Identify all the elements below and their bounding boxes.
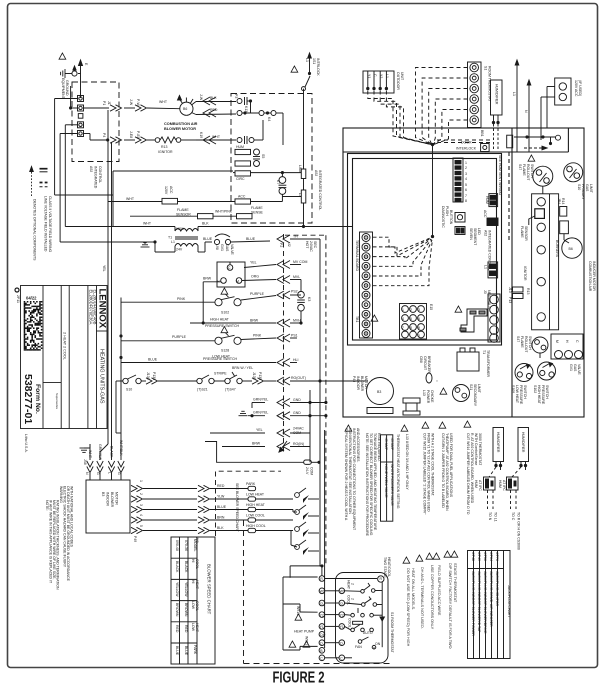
YEL row (210, 432, 265, 434)
svg-text:LOW: LOW (191, 623, 195, 632)
svg-text:J138: J138 (146, 372, 150, 380)
svg-text:FIELD SUPPLIED ACC WIRE: FIELD SUPPLIED ACC WIRE (437, 565, 441, 616)
svg-text:BLOWER SPEED CHART: BLOWER SPEED CHART (207, 564, 212, 615)
svg-text:BLACK: BLACK (184, 561, 188, 573)
svg-text:HIGH HEAT: HIGH HEAT (537, 385, 541, 405)
long verticals to blower (107, 110, 109, 444)
svg-text:JACK/PLUG-INDOOR BLOWER/DRIVE: JACK/PLUG-INDOOR BLOWER/DRIVE (483, 571, 487, 634)
BRW row (222, 446, 265, 448)
svg-text:SEE BLOWER SPEED CHART: SEE BLOWER SPEED CHART (235, 483, 239, 533)
svg-text:090-48: 090-48 (175, 540, 179, 551)
svg-text:PS1: PS1 (291, 334, 298, 338)
svg-text:K7: K7 (276, 180, 280, 184)
svg-text:J48: J48 (83, 459, 87, 465)
svg-text:JACK/PLUG-INDOOR BLOWER/B TAP: JACK/PLUG-INDOOR BLOWER/B TAP (477, 571, 481, 633)
HUM AT IFC plugs (485, 479, 517, 489)
svg-text:2: 2 (351, 598, 355, 600)
svg-text:BREAKER: BREAKER (427, 356, 431, 373)
motor box (86, 480, 130, 533)
svg-text:WHT: WHT (143, 222, 152, 226)
svg-text:OR DEATH UNIT MUST BE GROUNDED: OR DEATH UNIT MUST BE GROUNDED IN ACCORD… (66, 486, 70, 582)
ACC pair (487, 218, 498, 226)
svg-text:LIMIT: LIMIT (589, 184, 593, 194)
svg-text:R14: R14 (561, 198, 565, 204)
door interlock cabinet (481, 144, 490, 152)
svg-text:BLOWER MOTOR: BLOWER MOTOR (164, 127, 196, 131)
svg-text:ACC: ACC (238, 195, 246, 199)
svg-text:HEAT PUMP: HEAT PUMP (294, 630, 315, 634)
svg-text:LED: LED (477, 228, 481, 235)
S47 rollout (533, 166, 553, 186)
svg-text:SEVEN: SEVEN (469, 228, 473, 240)
blue wire (121, 362, 276, 364)
svg-text:L13: L13 (422, 390, 426, 396)
big dashed box (243, 520, 245, 664)
svg-text:BROWN: BROWN (184, 603, 188, 617)
svg-text:RISE REQUIRED.: RISE REQUIRED. (377, 433, 381, 462)
svg-text:P138: P138 (152, 372, 156, 380)
diagnostic push button (455, 213, 465, 223)
svg-text:MUST BE REPLACED WITH WIRE OF: MUST BE REPLACED WITH WIRE OF LIKE SIZE, (52, 500, 56, 580)
svg-text:L1: L1 (385, 74, 389, 78)
svg-text:SECONDARY: SECONDARY (473, 384, 477, 407)
svg-text:120V: 120V (164, 186, 168, 195)
svg-text:HEAT: HEAT (347, 580, 351, 590)
svg-text:CHOKE: CHOKE (430, 390, 434, 403)
svg-text:INTRLOCK: INTRLOCK (316, 58, 320, 76)
J49 chevrons right (131, 485, 143, 491)
svg-text:DIP SWITCH FACTORY DEFAULT IS: DIP SWITCH FACTORY DEFAULT IS FOR A TWO (448, 563, 452, 649)
svg-text:G: G (365, 274, 367, 278)
svg-text:JACK/PLUG-INDOOR BLOWER POWER: JACK/PLUG-INDOOR BLOWER POWER (471, 571, 475, 636)
svg-text:J/P58: J/P58 (483, 552, 487, 561)
S102 high heat pressure switch (538, 362, 556, 380)
svg-text:J-E8: J-E8 (129, 131, 133, 138)
svg-text:1: 1 (465, 161, 467, 165)
humidifier boxes (493, 428, 504, 462)
svg-text:BLOWER: BLOWER (360, 376, 364, 392)
B3 motor (367, 378, 394, 405)
svg-text:VALVE: VALVE (230, 244, 234, 255)
keypad grid (400, 304, 427, 340)
svg-text:SWITCH: SWITCH (528, 336, 532, 350)
svg-text:RO(OUT): RO(OUT) (291, 376, 306, 380)
svg-text:JACK/PLUG-COMB. AIR INDUCER: JACK/PLUG-COMB. AIR INDUCER (489, 571, 493, 627)
K3 coil circles (300, 280, 302, 292)
svg-text:P3: P3 (234, 94, 238, 98)
svg-text:M: M (236, 280, 239, 284)
svg-text:W1: W1 (320, 590, 325, 594)
svg-text:J1: J1 (107, 101, 111, 105)
svg-text:INDUCER MOTOR: INDUCER MOTOR (592, 261, 596, 291)
svg-text:R: R (365, 322, 367, 326)
svg-text:7: 7 (402, 326, 404, 330)
svg-text:CUT W914 JUMPER LABELED DHUM F: CUT W914 JUMPER LABELED DHUM FROM O TO (466, 433, 470, 515)
svg-text:TRANSFORMER: TRANSFORMER (486, 350, 490, 378)
svg-text:1: 1 (139, 480, 143, 482)
svg-text:J13: J13 (508, 287, 512, 293)
svg-text:INDOOR: INDOOR (356, 376, 360, 390)
svg-text:6: 6 (465, 188, 467, 192)
svg-text:BRW: BRW (250, 319, 259, 323)
room thermostat strip (468, 62, 482, 128)
svg-text:Y1: Y1 (340, 625, 344, 629)
GV1 arc circles on TH wire (214, 239, 219, 244)
svg-text:ELECTRIC SHOCK HAZARD CAN CAUS: ELECTRIC SHOCK HAZARD CAN CAUSE INJURY (63, 486, 67, 568)
svg-text:RED: RED (184, 625, 188, 633)
RED wire (196, 113, 236, 116)
svg-text:CLASS II VOLTAGE FIELD WIRING: CLASS II VOLTAGE FIELD WIRING (48, 196, 52, 253)
svg-text:W2: W2 (364, 255, 369, 259)
svg-text:D: D (320, 641, 323, 645)
svg-text:G: G (340, 602, 343, 606)
svg-text:A92: A92 (484, 230, 488, 236)
svg-text:R: R (320, 577, 323, 581)
svg-text:K4: K4 (267, 117, 271, 121)
svg-text:ROLLOUT: ROLLOUT (526, 164, 530, 181)
dashed J2 boundary (283, 234, 285, 455)
R13 ignitor (513, 287, 524, 292)
flame sensor (198, 214, 214, 219)
svg-text:L1: L1 (298, 193, 302, 197)
wires rows to stat (325, 578, 377, 580)
svg-text:N: N (524, 110, 528, 113)
svg-text:J/P76: J/P76 (495, 552, 499, 561)
ground at J48 (89, 444, 91, 448)
svg-text:PINK: PINK (177, 297, 186, 301)
svg-text:MODEL: MODEL (193, 539, 197, 552)
svg-text:L1: L1 (512, 92, 516, 96)
svg-text:S1 ROOM THERMOSTAT: S1 ROOM THERMOSTAT (390, 612, 394, 654)
svg-text:HEATING UNITS-GAS: HEATING UNITS-GAS (99, 349, 105, 404)
svg-text:538277-01: 538277-01 (22, 374, 34, 424)
svg-text:LINE VOLTAGE FIELD INSTALLED: LINE VOLTAGE FIELD INSTALLED (44, 196, 48, 252)
svg-text:PARK: PARK (193, 645, 197, 655)
svg-text:FLAME: FLAME (520, 226, 524, 238)
svg-text:RED: RED (210, 108, 218, 112)
svg-text:BURNERS: BURNERS (555, 240, 559, 258)
svg-text:RED: RED (175, 625, 179, 633)
svg-text:BRN W / YEL: BRN W / YEL (232, 366, 253, 370)
fuse (507, 135, 513, 148)
svg-text:PS2: PS2 (291, 290, 298, 294)
svg-text:COMBUSTION AIR: COMBUSTION AIR (588, 261, 592, 292)
svg-text:.43 AMP: .43 AMP (390, 437, 394, 451)
svg-text:MOTOR: MOTOR (115, 492, 119, 505)
dip switches (453, 158, 463, 202)
svg-text:IGNITOR: IGNITOR (523, 266, 527, 281)
svg-text:NOTE:: NOTE: (45, 500, 49, 511)
svg-text:Y2: Y2 (340, 613, 344, 617)
high heat pressure switch S102 (215, 294, 241, 306)
svg-text:WITH ComfortSense: WITH ComfortSense (474, 433, 478, 465)
wire CIRC y=172.6 (233, 172, 235, 174)
svg-text:L1: L1 (484, 265, 488, 269)
svg-text:J/P64: J/P64 (489, 552, 493, 561)
fan node (431, 143, 433, 145)
svg-text:HEAT ON ALL MODELS.: HEAT ON ALL MODELS. (411, 568, 415, 610)
svg-text:TYPICAL SYSTEM SHOWN FOR 2 HEA: TYPICAL SYSTEM SHOWN FOR 2 HEAT/2 COOL W… (344, 428, 348, 521)
svg-text:2: 2 (410, 308, 412, 312)
door interlock (302, 87, 306, 91)
placeholder groups (55, 53, 198, 444)
svg-text:W1: W1 (364, 265, 369, 269)
combustion air blower motor (180, 102, 193, 115)
svg-text:HUM: HUM (236, 145, 244, 149)
WHT ignitor wire (196, 139, 236, 141)
L1/LINE pairs (488, 262, 498, 278)
svg-text:BLUE: BLUE (175, 646, 179, 656)
120V acc box (555, 78, 571, 105)
svg-text:BRW: BRW (252, 442, 261, 446)
svg-text:C: C (575, 340, 579, 343)
svg-text:PRESSURE SWITCH: PRESSURE SWITCH (205, 324, 240, 328)
svg-text:C: C (365, 245, 367, 249)
ACC pill (235, 199, 251, 204)
svg-text:GAS: GAS (585, 184, 589, 192)
svg-text:(IF USED): (IF USED) (578, 80, 582, 96)
S47 rollout 2 (532, 337, 548, 353)
svg-text:TO SET CORRECT BLOWER SPEED FO: TO SET CORRECT BLOWER SPEED FOR SPECIFIC… (369, 433, 373, 536)
svg-text:HEAT: HEAT (195, 623, 199, 633)
svg-text:YEL: YEL (256, 428, 263, 432)
svg-text:24V: 24V (176, 248, 183, 252)
wires to combustion motor (124, 107, 135, 109)
svg-text:J2: J2 (287, 243, 291, 247)
svg-text:.45 AMP: .45 AMP (384, 437, 388, 451)
svg-text:PRESSURE: PRESSURE (519, 385, 523, 405)
svg-text:DIAGNOSTIC: DIAGNOSTIC (441, 206, 445, 228)
svg-text:HUMIDIFIER: HUMIDIFIER (496, 432, 500, 453)
burner wall (511, 128, 513, 417)
svg-text:24VAC: 24VAC (309, 241, 313, 252)
svg-text:S21: S21 (469, 384, 473, 390)
svg-text:3000 THERMOSTAT: 3000 THERMOSTAT (478, 433, 482, 466)
buses (319, 239, 321, 567)
svg-text:LOW: LOW (191, 601, 195, 610)
A92 double box (348, 154, 502, 346)
svg-text:BLUE: BLUE (217, 505, 227, 509)
svg-text:2: 2 (139, 493, 143, 495)
svg-text:ACC: ACC (169, 186, 173, 194)
ignitor row (124, 139, 135, 141)
svg-text:Y1: Y1 (320, 625, 324, 629)
svg-text:RATING INSULATION THICKNESS, A: RATING INSULATION THICKNESS, AND TERMINA… (56, 500, 60, 590)
svg-text:R, AT A92 CONTROL BOARD, WHEN: R, AT A92 CONTROL BOARD, WHEN USED (470, 433, 474, 504)
svg-text:WHT/BLK: WHT/BLK (119, 440, 123, 456)
S109 low heat pressure switch (515, 364, 533, 382)
relay coil K (281, 173, 283, 177)
svg-text:P2: P2 (279, 243, 283, 247)
J2 chevrons (277, 235, 437, 452)
svg-text:WITH A 2 STAGE COOL THERMOSTAT: WITH A 2 STAGE COOL THERMOSTAT. (431, 433, 435, 496)
svg-text:24VAC: 24VAC (293, 427, 304, 431)
svg-text:P135: P135 (258, 372, 262, 380)
svg-text:HI: HI (191, 580, 195, 584)
CB8 (426, 373, 432, 383)
terminal circles column (321, 565, 323, 567)
svg-text:CB8: CB8 (419, 356, 423, 363)
BLK wire from motor (196, 101, 236, 103)
svg-text:P48: P48 (352, 376, 356, 382)
svg-text:FIGURE 2: FIGURE 2 (272, 669, 324, 686)
svg-text:D: D (340, 641, 343, 645)
svg-text:B: B (365, 332, 367, 336)
svg-text:W1: W1 (340, 590, 345, 594)
svg-text:BLK: BLK (210, 96, 217, 100)
svg-text:K3: K3 (307, 297, 311, 301)
WHT wire to 120V ACC pill (108, 201, 162, 203)
svg-text:COM: COM (310, 467, 314, 475)
svg-text:USED FOR DUAL FUEL APPLICATION: USED FOR DUAL FUEL APPLICATIONS (449, 433, 453, 498)
top feed wires (516, 64, 518, 152)
svg-text:CONTROL: CONTROL (98, 166, 102, 183)
thermostat box (336, 573, 389, 664)
svg-text:LENNOX: LENNOX (97, 289, 108, 329)
svg-text:TO L1: TO L1 (494, 512, 498, 522)
svg-text:J-W: J-W (199, 94, 203, 101)
svg-text:E15: E15 (429, 304, 433, 310)
svg-text:B3: B3 (101, 492, 105, 496)
wires leaving squares (71, 107, 78, 109)
svg-text:FLAME: FLAME (520, 336, 524, 348)
svg-text:JR4: JR4 (557, 198, 561, 204)
svg-text:8: 8 (465, 199, 467, 203)
svg-text:TO N: TO N (488, 512, 492, 521)
svg-text:04/22: 04/22 (26, 296, 37, 301)
svg-text:L98: L98 (215, 244, 219, 250)
svg-text:INTEGRATED CONTROL: INTEGRATED CONTROL (318, 170, 322, 210)
CIRC pill + wire (235, 171, 251, 176)
svg-text:G: G (320, 602, 323, 606)
svg-text:P13: P13 (508, 297, 512, 303)
svg-text:FAN: FAN (355, 645, 362, 649)
svg-text:L1: L1 (171, 240, 175, 244)
svg-text:BUTTON: BUTTON (449, 210, 453, 225)
svg-text:COOL: COOL (195, 601, 199, 611)
svg-text:3: 3 (465, 172, 467, 176)
S21 secondary limit (453, 385, 470, 402)
dashed corner of selection area (216, 471, 282, 536)
svg-text:BLACK: BLACK (175, 561, 179, 573)
svg-text:LOW HEAT: LOW HEAT (246, 493, 265, 497)
svg-text:R13: R13 (526, 288, 530, 294)
svg-text:SWITCH: SWITCH (545, 385, 549, 399)
svg-text:WHITE RODGERS VALVE: WHITE RODGERS VALVE (390, 464, 394, 506)
svg-text:B3: B3 (377, 390, 381, 394)
svg-text:INDOOR: INDOOR (106, 492, 110, 506)
svg-text:INTEGRATED: INTEGRATED (94, 166, 98, 189)
svg-text:8: 8 (410, 326, 412, 330)
terminal squares (78, 96, 84, 137)
svg-text:6: 6 (418, 317, 420, 321)
svg-text:ROLLOUT: ROLLOUT (524, 336, 528, 353)
svg-text:Supersedes: Supersedes (55, 393, 59, 410)
note triangle 1 (59, 53, 66, 59)
svg-text:PRIMARY: PRIMARY (581, 184, 585, 201)
svg-text:COOL: COOL (348, 618, 352, 628)
fan 2 to TB1 (431, 235, 433, 237)
svg-text:H: H (365, 293, 367, 297)
svg-text:B6: B6 (183, 107, 187, 111)
svg-text:PINK: PINK (253, 334, 262, 338)
svg-text:GRN/YEL: GRN/YEL (253, 398, 268, 402)
svg-text:0: 0 (418, 334, 420, 338)
svg-text:NEUTRALS: NEUTRALS (487, 290, 491, 309)
svg-text:GAS: GAS (225, 244, 229, 252)
A92 dashed box (231, 94, 312, 224)
svg-text:HIGH HEAT: HIGH HEAT (210, 318, 230, 322)
svg-text:RO(IN): RO(IN) (293, 442, 304, 446)
svg-text:IGNITOR: IGNITOR (158, 150, 173, 154)
svg-text:MV COM: MV COM (293, 260, 307, 264)
svg-text:2 HEAT 2 COOL: 2 HEAT 2 COOL (63, 332, 67, 360)
svg-text:J-W: J-W (129, 99, 133, 106)
svg-text:P4: P4 (102, 133, 106, 137)
svg-text:GND: GND (293, 398, 301, 402)
svg-text:TO R OR H ON CS3000: TO R OR H ON CS3000 (517, 512, 521, 550)
svg-text:COOL: COOL (347, 595, 351, 605)
svg-text:2: 2 (465, 166, 467, 170)
svg-text:PRESSURE SWITCH: PRESSURE SWITCH (203, 357, 238, 361)
left junction bus (120, 298, 122, 434)
svg-text:THERMOSTAT HEAT ANTICIPATION S: THERMOSTAT HEAT ANTICIPATION SETTING (396, 434, 400, 509)
svg-text:HUM: HUM (498, 480, 502, 488)
J3 neutrals (488, 294, 500, 342)
wires to plugs (84, 107, 110, 109)
equipment ground (80, 62, 82, 98)
svg-text:GV1: GV1 (569, 364, 573, 371)
svg-text:SEGMENT: SEGMENT (473, 228, 477, 246)
svg-text:J135: J135 (252, 372, 256, 380)
svg-text:S47: S47 (518, 164, 522, 170)
L13 power choke (403, 398, 420, 403)
svg-text:1: 1 (402, 308, 404, 312)
transformer T1 (175, 229, 198, 232)
svg-text:A92: A92 (89, 166, 93, 172)
svg-text:STAGE THERMOSTAT: STAGE THERMOSTAT (453, 563, 457, 603)
svg-text:H: H (565, 340, 569, 343)
svg-text:COMBUSTION AIR: COMBUSTION AIR (164, 122, 198, 126)
svg-text:WHT/PINK: WHT/PINK (215, 210, 233, 214)
jumper box left (282, 577, 284, 650)
svg-text:IF ANY WIRE IN THIS APPLIANCE: IF ANY WIRE IN THIS APPLIANCE IS REPLACE… (49, 500, 53, 584)
svg-text:BB1: BB1 (480, 130, 484, 137)
HUM jumper (489, 194, 498, 207)
svg-text:YELLOW: YELLOW (184, 582, 188, 597)
svg-text:G: G (117, 472, 121, 475)
note triangles row (mid) (345, 425, 352, 431)
svg-text:AT IFC: AT IFC (502, 480, 506, 491)
dashed bundle top: thermostat wires (368, 68, 490, 145)
flame sensor rect (535, 209, 545, 219)
svg-text:HIGH HEAT: HIGH HEAT (246, 503, 266, 507)
svg-text:070-36: 070-36 (184, 540, 188, 551)
FLAME SENSE pill (237, 214, 253, 219)
svg-text:TONNAGE BEING APPLIED, AND HEA: TONNAGE BEING APPLIED, AND HEATING TEMPE… (373, 433, 377, 531)
svg-text:ON: ON (375, 642, 381, 646)
svg-text:BLOWER: BLOWER (110, 492, 114, 508)
svg-text:GRN/YEL: GRN/YEL (253, 411, 268, 415)
gas valve box (217, 262, 245, 287)
J1/P1 plugs (110, 105, 122, 111)
seven segment led (455, 227, 465, 235)
svg-text:S109: S109 (511, 385, 515, 393)
svg-text:S10: S10 (126, 388, 132, 392)
svg-text:BROWN: BROWN (175, 603, 179, 617)
svg-text:JACK/PLUG CHART: JACK/PLUG CHART (507, 585, 511, 618)
svg-text:FLAME: FLAME (177, 208, 189, 212)
